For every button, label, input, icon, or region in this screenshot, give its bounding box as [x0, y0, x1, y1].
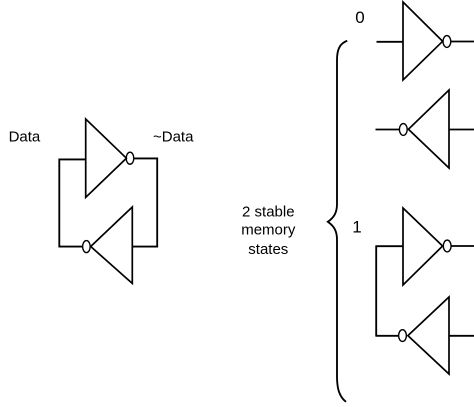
inverter U2 (latch bottom, points left) — [91, 207, 133, 283]
bubble of U2 — [83, 241, 91, 253]
bubble of U4 — [399, 124, 407, 136]
wire U3 output stub — [451, 41, 474, 43]
inverter U5 (state 1 top, points right) — [403, 208, 443, 285]
inverter U3 (state 0 top, points right) — [403, 2, 443, 80]
wire state1 left vertical — [375, 246, 377, 336]
wire U5 output stub — [451, 245, 474, 247]
svg-text:2 stable: 2 stable — [242, 204, 295, 221]
wire U4 output stub — [376, 129, 400, 131]
wire U5 input horizontal — [375, 245, 403, 247]
svg-text:1: 1 — [352, 217, 361, 236]
inverter U6 (state 1 bottom, points left) — [408, 297, 449, 374]
brace (2 states) — [328, 41, 347, 402]
svg-text:Data: Data — [9, 129, 41, 146]
wire U3 input stub — [377, 41, 404, 43]
svg-text:memory: memory — [241, 222, 296, 239]
bubble of U5 — [443, 240, 451, 252]
wire U6 output horizontal — [375, 335, 398, 337]
svg-text:0: 0 — [355, 8, 364, 27]
wire U4 input stub — [449, 129, 474, 131]
bubble of U1 — [126, 152, 134, 164]
wire latch right loop (U1 output to U2 input) — [132, 158, 157, 246]
bubble of U6 — [399, 330, 407, 342]
inverter U4 (state 0 bottom, points left) — [408, 90, 449, 168]
svg-text:~Data: ~Data — [153, 129, 194, 146]
bubble of U3 — [443, 36, 451, 48]
wire latch left loop (U1 input to U2 output) — [59, 159, 85, 246]
svg-text:states: states — [248, 241, 288, 258]
inverter U1 (latch top, points right) — [86, 119, 127, 197]
wire U6 input stub — [449, 335, 474, 337]
